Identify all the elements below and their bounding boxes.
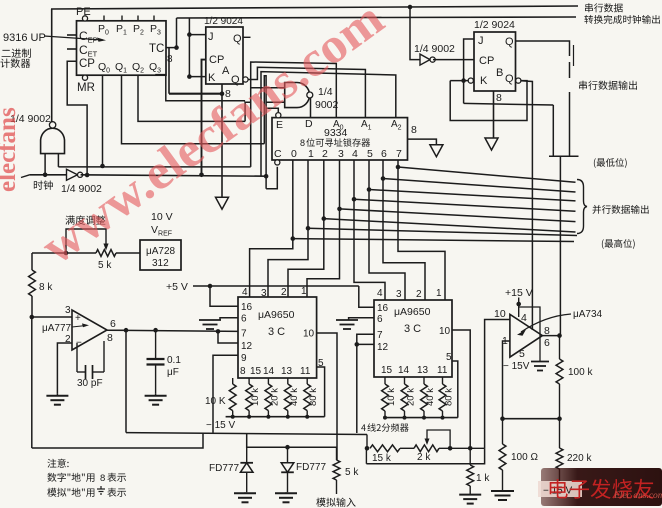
wire TC up to clock-out line (176, 18, 178, 48)
svg-text:100 Ω: 100 Ω (511, 452, 538, 463)
comparator U9 uA734 (510, 314, 543, 357)
svg-text:9002: 9002 (315, 99, 339, 111)
svg-text:C: C (274, 148, 282, 160)
wire pins 7/12 tie (357, 334, 374, 344)
ground digital D1 (244, 492, 246, 493)
svg-text:10 V: 10 V (151, 211, 173, 223)
op-amp U8 uA777 (72, 310, 107, 350)
wire NAND2 inputs (251, 87, 285, 89)
resistor 5k input (333, 460, 340, 480)
wire summing line (126, 433, 367, 435)
svg-text:80 k: 80 k (308, 388, 319, 406)
svg-text:12: 12 (377, 342, 389, 353)
label (最高位) (602, 239, 604, 249)
ground digital 0.1uF (155, 394, 157, 396)
counter U1 9316 box (77, 21, 167, 75)
wire E feed from Q1 (264, 76, 266, 189)
potentiometer 5k (96, 250, 116, 257)
svg-text:5 k: 5 k (98, 260, 112, 271)
wire comparator link vertical (559, 156, 561, 335)
resistor 220k (559, 419, 561, 448)
annotation arrow 9316 (44, 36, 103, 40)
svg-text:10: 10 (303, 329, 315, 340)
svg-text:− 15 V: − 15 V (206, 420, 236, 431)
svg-text:8 k: 8 k (39, 282, 53, 293)
ground bars comparator (531, 361, 549, 363)
label 时钟 (34, 180, 43, 189)
pin stubs P inputs (103, 16, 105, 21)
capacitor 30pF feedback (76, 343, 78, 372)
svg-text:3 C: 3 C (404, 323, 421, 335)
svg-text:20 k: 20 k (406, 388, 417, 406)
ground digital pin2 (56, 394, 58, 396)
label 模拟输入 (316, 498, 325, 507)
label 模拟地用表示 (47, 488, 56, 497)
flip-flop U2 1/2 9024 A box (206, 27, 243, 84)
label 二进制 (2, 50, 11, 57)
svg-text:1/4 9002: 1/4 9002 (414, 43, 455, 55)
wire pins 7/12 down to summing line (356, 344, 358, 433)
svg-text:6: 6 (241, 314, 247, 325)
wire Qbar feedback loop to K (450, 81, 527, 121)
wire strobe from Qbar down to comparator (521, 81, 532, 330)
wire serial-data top line (51, 6, 578, 9)
svg-text:4: 4 (352, 148, 358, 160)
svg-text:Q: Q (233, 33, 242, 45)
svg-text:μA734: μA734 (573, 309, 603, 320)
wire 2k to 1k node (439, 447, 485, 449)
svg-text:CP: CP (479, 55, 494, 67)
svg-text:100 k: 100 k (568, 367, 593, 378)
wire NAND-D line (58, 166, 250, 168)
svg-text:4: 4 (377, 288, 383, 299)
svg-text:J: J (478, 35, 484, 47)
wire Q1 down-right (122, 75, 265, 144)
svg-text:8: 8 (240, 366, 246, 377)
svg-text:6: 6 (381, 148, 387, 160)
wire Q2 down-right (138, 75, 245, 121)
resistor 15k (370, 445, 400, 452)
svg-text:15: 15 (250, 366, 262, 377)
resistor 1k (469, 448, 471, 465)
resistor 8k (31, 253, 33, 270)
wire output down (125, 330, 127, 432)
wire +5V to DAC2 pin16 (359, 286, 374, 307)
capacitor 0.1uF (155, 330, 157, 359)
wire staircase out1 to DAC1 pin3 (268, 228, 308, 297)
svg-text:μA9650: μA9650 (394, 306, 431, 318)
wire TC-8 down (168, 48, 170, 94)
svg-text:A: A (222, 65, 230, 77)
wire 9024A ground stem (221, 84, 223, 197)
wire staircase out5 to DAC2 pin3 (369, 190, 405, 301)
svg-text:2 k: 2 k (417, 452, 431, 463)
svg-text:TC: TC (149, 43, 164, 55)
svg-text:16: 16 (241, 302, 253, 313)
wire serial-out broken lead (569, 62, 571, 78)
brace parallel outputs (577, 180, 587, 234)
svg-text:10 K: 10 K (205, 396, 226, 407)
wire serial output line (464, 103, 554, 105)
svg-text:11: 11 (300, 366, 311, 377)
wire Q2/Q3 jog into column (245, 102, 251, 121)
svg-text:μF: μF (167, 367, 179, 378)
wire summing to 15k node (366, 435, 368, 449)
svg-text:FD777: FD777 (296, 462, 326, 473)
wire pin9 to summing line (213, 355, 238, 432)
svg-text:8: 8 (300, 138, 305, 148)
resistor 100k (559, 336, 561, 359)
resistor 100ohm (502, 419, 504, 444)
svg-text:8: 8 (411, 124, 417, 136)
wire C feed (266, 167, 277, 189)
svg-text:0.1: 0.1 (167, 355, 181, 366)
svg-text:2: 2 (322, 148, 328, 160)
wire conversion-complete clock line (177, 17, 577, 18)
wire staircase out3 to DAC1 pin1 (307, 209, 340, 297)
wire clock input lead (21, 175, 30, 178)
ground analog DAC2 pin6 (349, 318, 374, 320)
svg-text:7: 7 (396, 148, 402, 160)
svg-text:13: 13 (281, 366, 293, 377)
svg-text:9: 9 (241, 353, 247, 364)
wire divider node (503, 418, 560, 420)
wire K input tied to J (189, 35, 205, 77)
pin stub CEP (67, 34, 77, 36)
wire staircase out2 to DAC1 pin2 (288, 219, 324, 297)
svg-text:μA777: μA777 (42, 323, 72, 334)
wire pot to uA728 (116, 252, 140, 254)
wire thick to 9024A ground node (169, 93, 222, 95)
label 4线2分频器 (361, 424, 366, 431)
svg-text:8: 8 (496, 92, 502, 104)
svg-text:elecfans: elecfans (0, 107, 21, 192)
pin stub CET (67, 48, 77, 50)
svg-text:μA9650: μA9650 (258, 309, 295, 321)
label 满度调整 (65, 215, 74, 224)
wire Q-top stub (243, 36, 251, 38)
svg-text:1: 1 (436, 288, 442, 299)
wire clock line right (81, 175, 267, 176)
svg-text:+5 V: +5 V (166, 281, 188, 293)
wire output line (107, 329, 126, 331)
svg-text:15: 15 (381, 365, 393, 376)
svg-text:15 k: 15 k (372, 453, 392, 464)
svg-text:10 k: 10 k (250, 388, 261, 406)
wire +15V in (518, 298, 520, 318)
wire staircase out4 to DAC2 pin4 (354, 199, 385, 300)
wire comparator pin10 sense (366, 448, 484, 464)
svg-text:11: 11 (437, 365, 448, 376)
svg-text:0: 0 (291, 148, 297, 160)
latch U3 9334 box (272, 118, 408, 160)
svg-text:9334: 9334 (324, 127, 348, 139)
svg-text:10: 10 (439, 326, 451, 337)
ground analog 100ohm (491, 490, 514, 492)
svg-text:312: 312 (152, 258, 169, 269)
wire 9024B ground stem (493, 91, 495, 138)
svg-text:5: 5 (519, 348, 525, 360)
node serial-data junction (408, 5, 413, 10)
wire pin5 to -15V rail (452, 361, 458, 418)
diode D2 FD777 (287, 447, 289, 463)
ground analog triangle 9024B (485, 138, 498, 150)
svg-text:4: 4 (242, 287, 248, 298)
svg-text:B: B (496, 67, 503, 79)
flip-flop U4 1/2 9024 B box (474, 32, 516, 91)
label 串行数据输出 (579, 81, 587, 90)
wire DAC1 out to 5k (336, 447, 338, 460)
wire A2 feed from clock (261, 72, 396, 176)
wire diode rail (247, 434, 337, 448)
svg-text:10: 10 (494, 308, 506, 320)
label 转换完成时钟输出 (584, 15, 593, 24)
svg-text:6: 6 (110, 318, 116, 330)
svg-text:1 k: 1 k (476, 473, 490, 484)
wire left rail down (30, 315, 35, 320)
svg-text:3: 3 (65, 305, 71, 316)
svg-text:5: 5 (446, 352, 452, 363)
wire Q0 down (102, 75, 104, 166)
svg-text:3: 3 (338, 148, 344, 160)
svg-text:80 k: 80 k (444, 388, 455, 406)
svg-text:K: K (208, 72, 216, 84)
ground digital 1k (469, 494, 471, 495)
svg-text:4: 4 (521, 312, 527, 324)
svg-text:CP: CP (79, 58, 95, 70)
wire pin1 divider (503, 341, 510, 419)
svg-text:Q: Q (505, 73, 514, 85)
svg-text:10 k: 10 k (386, 388, 397, 406)
svg-text:3 C: 3 C (268, 326, 285, 338)
svg-text:12: 12 (241, 341, 253, 352)
wire pin10 output down (317, 333, 337, 460)
ground analog triangle 9334 (430, 145, 443, 157)
wire fullscale bracket (66, 229, 106, 253)
wire LSB branch (552, 105, 554, 156)
svg-text:9316 UP: 9316 UP (3, 32, 46, 44)
wire Q3 down-right (156, 75, 245, 101)
svg-text:− 15V: − 15V (503, 361, 530, 372)
wire K input (450, 80, 468, 82)
svg-text:1/2 9024: 1/2 9024 (204, 16, 243, 27)
wire NAND1 output up to serial line (51, 9, 53, 122)
svg-text:Elec ans.com: Elec ans.com (613, 491, 662, 501)
diode D1 FD777 (246, 447, 248, 463)
wire A1 feed from 9024A Qbar (248, 67, 365, 117)
label (最低位) (594, 158, 596, 168)
wire NAND2 output to D (310, 98, 312, 118)
wire serial data to inverter (410, 7, 420, 60)
wire J from serial output node (464, 39, 474, 103)
svg-text:E: E (276, 119, 283, 131)
svg-text:+15 V: +15 V (505, 287, 533, 299)
wire counter CP path (67, 61, 87, 175)
wire J input from clock-out line (189, 18, 205, 35)
node Q0 junction (100, 164, 105, 169)
svg-text:3: 3 (396, 289, 402, 300)
wire pin3 input (32, 316, 72, 318)
svg-text:6: 6 (544, 337, 550, 349)
wire -15V rail DAC1 (226, 416, 325, 418)
dac U5 uA9650 box (238, 297, 317, 378)
svg-text:1: 1 (301, 286, 307, 297)
svg-text:3: 3 (261, 288, 267, 299)
svg-text:20 k: 20 k (269, 388, 280, 406)
svg-text:7: 7 (241, 329, 247, 340)
svg-text:J: J (208, 31, 214, 43)
wire +5V to DAC1 pin16 (210, 286, 238, 306)
wire staircase out0 to DAC1 pin4 (250, 239, 293, 297)
svg-text:40 k: 40 k (425, 388, 436, 406)
wire output node (542, 335, 559, 337)
svg-text:2: 2 (416, 289, 422, 300)
wire Q top output (516, 41, 570, 56)
svg-text:5 k: 5 k (345, 467, 359, 478)
svg-text:16: 16 (377, 303, 389, 314)
wire -15V rail DAC2 (385, 417, 458, 419)
nand gate G3 1/4 9002 (285, 83, 310, 108)
wire 2k wiper (427, 430, 450, 448)
wire TC to node (166, 47, 177, 49)
ground analog triangle 9024A (216, 197, 229, 209)
wire clock line left (30, 174, 67, 176)
label 计数器 (0, 58, 9, 67)
wire A0 feed from NAND line (251, 62, 337, 167)
svg-text:Q: Q (505, 36, 514, 48)
svg-text:8: 8 (167, 54, 173, 65)
resistor network DAC2 (384, 377, 386, 384)
svg-text:1: 1 (308, 148, 314, 160)
svg-text:D: D (305, 118, 313, 130)
parallel output bus lines (293, 239, 574, 242)
svg-text:8: 8 (107, 332, 113, 344)
svg-text:8: 8 (100, 473, 105, 484)
svg-text:40 k: 40 k (289, 388, 300, 406)
nand gate G1 1/4 9002 (41, 128, 65, 153)
node 15k left (365, 446, 370, 451)
annotation arrow uA734 (521, 314, 571, 332)
svg-text:1/2 9024: 1/2 9024 (474, 19, 515, 31)
label 串行数据 (585, 3, 593, 12)
potentiometer 2k (414, 445, 439, 452)
wire pin12 jog (218, 331, 238, 343)
svg-text:220 k: 220 k (567, 453, 592, 464)
wire pin5 to -15V rail (317, 367, 325, 417)
svg-text:30 pF: 30 pF (77, 378, 103, 389)
wire pin10 output down (452, 330, 470, 448)
svg-text:2: 2 (281, 287, 287, 298)
wire 9334 ground (408, 139, 437, 145)
resistor network DAC1 (232, 378, 234, 384)
dac U6 uA9650 box (374, 300, 452, 377)
svg-text:+: + (75, 313, 81, 324)
inverter G4 1/4 9002 serial (420, 54, 430, 65)
wire staircase out6 to DAC2 pin2 (383, 179, 425, 301)
wire inverter to CP (433, 59, 474, 61)
wire op-amp output line to pins 7/12 (107, 330, 238, 331)
wire +5V rail (193, 285, 359, 287)
svg-text:7: 7 (377, 330, 383, 341)
vref U7 uA728 box (140, 240, 181, 270)
label 并行数据输出 (592, 205, 601, 214)
inverter G2 1/4 9002 clock (67, 169, 78, 180)
svg-text:13: 13 (417, 365, 429, 376)
wire staircase out7 to DAC2 pin1 (398, 167, 445, 300)
svg-text:14: 14 (398, 365, 410, 376)
svg-text:5: 5 (367, 148, 373, 160)
svg-text:μA728: μA728 (146, 246, 176, 257)
svg-text:6: 6 (377, 314, 383, 325)
wire pin2 input (57, 343, 72, 394)
wire CP from clock line (202, 60, 206, 175)
svg-text:FD777: FD777 (209, 463, 239, 474)
wire loop bottom (32, 433, 203, 448)
wire 9334 output pins down (292, 160, 294, 239)
svg-text:MR: MR (77, 82, 95, 94)
svg-text:14: 14 (263, 366, 275, 377)
label 数字地用8表示 (47, 473, 56, 482)
ground digital D2 (285, 492, 287, 493)
wire NAND1 input legs (44, 154, 46, 175)
label 注意: (47, 459, 56, 468)
wire vref line (32, 252, 96, 254)
ground analog DAC1 pin6 (220, 318, 238, 320)
svg-text:K: K (480, 75, 488, 87)
wire bypass to ground (519, 307, 540, 361)
wire pin10 up to comparator (485, 320, 510, 449)
